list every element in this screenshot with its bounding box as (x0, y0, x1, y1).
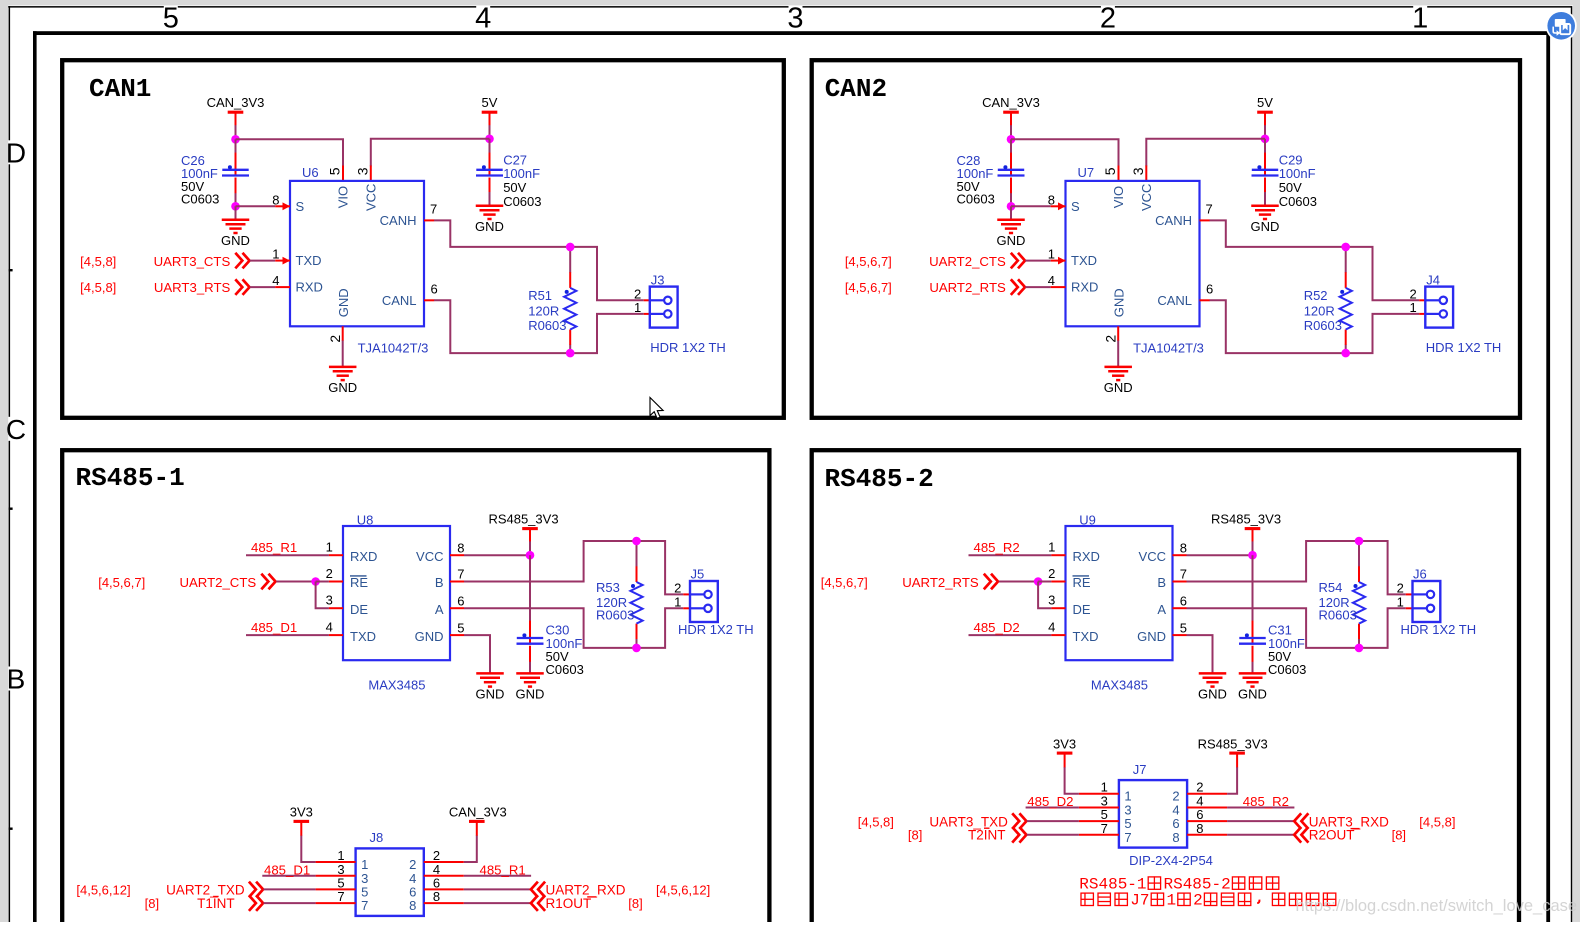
svg-text:120R: 120R (528, 303, 559, 318)
svg-text:6: 6 (1206, 282, 1213, 297)
svg-text:R2OUT: R2OUT (1309, 828, 1355, 843)
svg-text:1: 1 (1409, 300, 1416, 315)
svg-text:8: 8 (433, 889, 440, 904)
svg-text:485_D2: 485_D2 (974, 620, 1020, 635)
svg-text:T2INT: T2INT (968, 828, 1006, 843)
svg-text:C0603: C0603 (546, 662, 584, 677)
svg-text:UART3_CTS: UART3_CTS (154, 254, 231, 269)
svg-text:CANH: CANH (380, 213, 417, 228)
svg-text:[8]: [8] (1392, 828, 1406, 843)
svg-text:RS485_3V3: RS485_3V3 (1198, 736, 1268, 751)
svg-text:CAN1: CAN1 (89, 74, 151, 104)
svg-text:2: 2 (674, 581, 681, 596)
svg-text:CANH: CANH (1155, 213, 1192, 228)
svg-text:5: 5 (163, 2, 179, 34)
svg-text:GND: GND (336, 288, 351, 317)
svg-text:[4,5,8]: [4,5,8] (858, 814, 894, 829)
svg-text:4: 4 (1048, 273, 1055, 288)
svg-text:485_D1: 485_D1 (264, 862, 310, 877)
svg-text:GND: GND (1251, 219, 1280, 234)
svg-text:[8]: [8] (145, 896, 159, 911)
svg-text:4: 4 (1048, 619, 1055, 634)
svg-text:6: 6 (1180, 593, 1187, 608)
svg-text:U7: U7 (1078, 165, 1095, 180)
svg-text:DIP-2X4-2P54: DIP-2X4-2P54 (1129, 853, 1213, 868)
svg-text:DE: DE (350, 602, 368, 617)
svg-text:3V3: 3V3 (1053, 736, 1076, 751)
svg-text:GND: GND (1198, 687, 1227, 702)
svg-text:VCC: VCC (1139, 184, 1154, 211)
svg-text:1: 1 (1167, 892, 1177, 910)
svg-text:5: 5 (457, 620, 464, 635)
svg-text:1: 1 (674, 594, 681, 609)
svg-text:U8: U8 (357, 512, 374, 527)
svg-text:1: 1 (326, 540, 333, 555)
svg-text:https://blog.csdn.net/switch_l: https://blog.csdn.net/switch_love_case (1296, 897, 1578, 915)
svg-text:3: 3 (1048, 593, 1055, 608)
svg-text:B: B (7, 664, 26, 695)
svg-text:RS485-2: RS485-2 (825, 464, 934, 494)
svg-text:2: 2 (1397, 581, 1404, 596)
svg-text:TJA1042T/3: TJA1042T/3 (1133, 340, 1204, 355)
svg-text:TXD: TXD (296, 253, 322, 268)
svg-text:CANL: CANL (1157, 293, 1192, 308)
svg-text:R0603: R0603 (596, 608, 634, 623)
svg-text:7: 7 (1180, 567, 1187, 582)
svg-text:GND: GND (997, 233, 1026, 248)
svg-text:A: A (435, 602, 444, 617)
svg-text:UART2_RTS: UART2_RTS (929, 280, 1006, 295)
svg-text:TXD: TXD (350, 629, 376, 644)
svg-text:485_R1: 485_R1 (480, 862, 526, 877)
svg-text:[4,5,6,7]: [4,5,6,7] (845, 254, 892, 269)
svg-text:VIO: VIO (336, 186, 351, 208)
svg-text:3: 3 (1130, 167, 1146, 175)
svg-text:7: 7 (1124, 830, 1131, 845)
svg-text:5V: 5V (1257, 95, 1273, 110)
svg-text:7: 7 (361, 898, 368, 913)
svg-text:2: 2 (1048, 566, 1055, 581)
svg-text:HDR 1X2 TH: HDR 1X2 TH (650, 340, 726, 355)
svg-text:[4,5,8]: [4,5,8] (80, 254, 116, 269)
svg-text:RS485-1: RS485-1 (76, 463, 185, 493)
svg-text:GND: GND (516, 687, 545, 702)
svg-text:2: 2 (409, 857, 416, 872)
svg-text:HDR 1X2 TH: HDR 1X2 TH (1426, 340, 1502, 355)
svg-text:T1INT: T1INT (197, 896, 235, 911)
svg-text:CAN_3V3: CAN_3V3 (207, 95, 265, 110)
svg-text:2: 2 (1193, 892, 1203, 910)
svg-text:RE: RE (1073, 575, 1091, 590)
svg-text:[4,5,6,7]: [4,5,6,7] (845, 280, 892, 295)
svg-text:GND: GND (1137, 629, 1166, 644)
svg-text:GND: GND (476, 687, 505, 702)
svg-text:1: 1 (1101, 780, 1108, 795)
svg-text:J8: J8 (370, 830, 384, 845)
svg-text:3: 3 (354, 167, 370, 175)
svg-text:TXD: TXD (1073, 629, 1099, 644)
svg-text:485_R2: 485_R2 (974, 540, 1020, 555)
svg-text:RXD: RXD (1071, 280, 1098, 295)
svg-text:CAN2: CAN2 (825, 74, 887, 104)
svg-text:HDR 1X2 TH: HDR 1X2 TH (678, 622, 754, 637)
svg-text:GND: GND (221, 233, 250, 248)
svg-text:[8]: [8] (908, 828, 922, 843)
svg-text:GND: GND (1238, 687, 1267, 702)
svg-text:C0603: C0603 (957, 191, 995, 206)
svg-text:8: 8 (1196, 821, 1203, 836)
svg-text:C0603: C0603 (503, 194, 541, 209)
svg-text:RXD: RXD (350, 549, 377, 564)
svg-text:7: 7 (1101, 821, 1108, 836)
svg-text:R53: R53 (596, 580, 620, 595)
svg-text:4: 4 (326, 619, 333, 634)
svg-text:S: S (1071, 199, 1080, 214)
svg-text:3: 3 (787, 2, 803, 34)
svg-text:1: 1 (1048, 540, 1055, 555)
svg-text:100nF: 100nF (503, 166, 540, 181)
svg-text:UART2_CTS: UART2_CTS (179, 575, 256, 590)
svg-text:2: 2 (1102, 335, 1118, 343)
svg-text:8: 8 (457, 540, 464, 555)
svg-text:2: 2 (327, 335, 343, 343)
svg-text:C0603: C0603 (1279, 194, 1317, 209)
svg-text:TXD: TXD (1071, 253, 1097, 268)
svg-text:4: 4 (272, 273, 279, 288)
svg-text:5V: 5V (482, 95, 498, 110)
svg-text:MAX3485: MAX3485 (1091, 677, 1148, 692)
svg-text:8: 8 (409, 898, 416, 913)
svg-text:R0603: R0603 (1304, 318, 1342, 333)
svg-text:UART2_CTS: UART2_CTS (929, 254, 1006, 269)
svg-text:8: 8 (1180, 540, 1187, 555)
svg-text:VCC: VCC (416, 549, 443, 564)
svg-text:CANL: CANL (382, 293, 417, 308)
svg-text:TJA1042T/3: TJA1042T/3 (358, 340, 429, 355)
svg-text:UART2_RTS: UART2_RTS (902, 575, 979, 590)
svg-text:[4,5,6,12]: [4,5,6,12] (76, 883, 130, 898)
svg-text:1: 1 (634, 300, 641, 315)
svg-text:1: 1 (1412, 2, 1428, 34)
svg-text:R54: R54 (1319, 580, 1343, 595)
svg-text:[4,5,8]: [4,5,8] (1419, 814, 1455, 829)
svg-text:[4,5,6,7]: [4,5,6,7] (821, 575, 868, 590)
svg-text:100nF: 100nF (1279, 166, 1316, 181)
svg-text:RE: RE (350, 575, 368, 590)
svg-text:J3: J3 (651, 272, 665, 287)
svg-text:1: 1 (337, 848, 344, 863)
svg-text:R1OUT: R1OUT (546, 896, 592, 911)
svg-text:HDR 1X2 TH: HDR 1X2 TH (1401, 622, 1477, 637)
svg-text:6: 6 (431, 282, 438, 297)
svg-text:CAN_3V3: CAN_3V3 (449, 805, 507, 820)
svg-text:3: 3 (326, 593, 333, 608)
svg-text:8: 8 (1048, 193, 1055, 208)
svg-text:C0603: C0603 (181, 191, 219, 206)
svg-text:U9: U9 (1079, 512, 1096, 527)
svg-text:C: C (6, 414, 26, 445)
svg-text:[4,5,6,12]: [4,5,6,12] (656, 883, 710, 898)
svg-text:RXD: RXD (1073, 549, 1100, 564)
svg-text:J6: J6 (1413, 567, 1427, 582)
svg-text:J5: J5 (691, 567, 705, 582)
svg-text:5: 5 (1180, 620, 1187, 635)
svg-text:C0603: C0603 (1268, 662, 1306, 677)
svg-text:GND: GND (1112, 288, 1127, 317)
svg-text:R0603: R0603 (528, 318, 566, 333)
svg-text:485_D1: 485_D1 (251, 620, 297, 635)
svg-text:8: 8 (1172, 830, 1179, 845)
svg-text:B: B (435, 575, 444, 590)
svg-text:485_R1: 485_R1 (251, 540, 297, 555)
svg-text:MAX3485: MAX3485 (368, 677, 425, 692)
svg-text:1: 1 (1397, 594, 1404, 609)
svg-text:5: 5 (327, 167, 343, 175)
svg-text:2: 2 (433, 848, 440, 863)
svg-text:7: 7 (337, 889, 344, 904)
svg-text:7: 7 (457, 567, 464, 582)
svg-text:[4,5,6,7]: [4,5,6,7] (98, 575, 145, 590)
svg-text:VCC: VCC (363, 184, 378, 211)
svg-text:UART3_RTS: UART3_RTS (154, 280, 231, 295)
svg-text:S: S (296, 199, 305, 214)
svg-text:D: D (6, 137, 26, 168)
svg-text:J7: J7 (1133, 762, 1147, 777)
svg-text:1: 1 (361, 857, 368, 872)
svg-text:[4,5,8]: [4,5,8] (80, 280, 116, 295)
svg-text:J7: J7 (1130, 892, 1149, 910)
svg-text:4: 4 (475, 2, 491, 34)
svg-text:50V: 50V (503, 180, 526, 195)
svg-text:[8]: [8] (628, 896, 642, 911)
svg-text:1: 1 (1124, 789, 1131, 804)
svg-text:7: 7 (430, 202, 437, 217)
svg-text:R0603: R0603 (1319, 608, 1357, 623)
svg-text:GND: GND (475, 219, 504, 234)
svg-text:GND: GND (415, 629, 444, 644)
svg-text:1: 1 (272, 247, 279, 262)
svg-text:8: 8 (272, 193, 279, 208)
svg-text:CAN_3V3: CAN_3V3 (982, 95, 1040, 110)
svg-text:R51: R51 (528, 288, 552, 303)
svg-text:1: 1 (1048, 247, 1055, 262)
svg-text:VIO: VIO (1111, 186, 1126, 208)
svg-text:RS485_3V3: RS485_3V3 (488, 511, 558, 526)
svg-text:2: 2 (1196, 780, 1203, 795)
svg-text:J4: J4 (1426, 272, 1440, 287)
svg-text:VCC: VCC (1139, 549, 1166, 564)
svg-text:RS485_3V3: RS485_3V3 (1211, 511, 1281, 526)
svg-text:GND: GND (1104, 380, 1133, 395)
svg-text:2: 2 (326, 566, 333, 581)
svg-text:485_D2: 485_D2 (1027, 794, 1073, 809)
svg-text:7: 7 (1206, 202, 1213, 217)
svg-text:2: 2 (1100, 2, 1116, 34)
svg-text:120R: 120R (1304, 303, 1335, 318)
svg-text:RXD: RXD (296, 280, 323, 295)
svg-text:GND: GND (328, 380, 357, 395)
svg-text:2: 2 (1172, 789, 1179, 804)
svg-text:A: A (1157, 602, 1166, 617)
svg-text:3V3: 3V3 (290, 805, 313, 820)
svg-text:U6: U6 (302, 165, 319, 180)
svg-text:R52: R52 (1304, 288, 1328, 303)
svg-text:5: 5 (1102, 167, 1118, 175)
svg-text:DE: DE (1073, 602, 1091, 617)
svg-text:B: B (1157, 575, 1166, 590)
svg-text:50V: 50V (1279, 180, 1302, 195)
svg-text:485_R2: 485_R2 (1243, 794, 1289, 809)
svg-text:6: 6 (457, 593, 464, 608)
